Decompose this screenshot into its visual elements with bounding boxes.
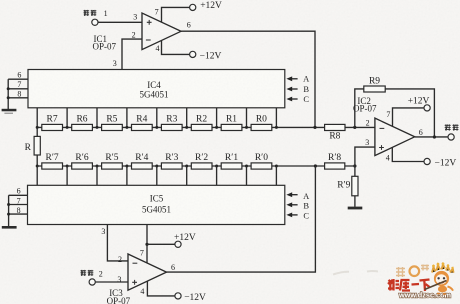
- wire Rp8 node to IC2 pin3: [355, 147, 375, 166]
- wire IC4 tap 6: [216, 108, 218, 128]
- multiplexer IC4: [28, 70, 285, 108]
- junction ladder1 node 4: [155, 126, 158, 129]
- junction ladder1 node 1: [66, 126, 69, 129]
- terminal +12V IC3: [175, 241, 181, 247]
- resistor R3: [161, 114, 182, 130]
- junction ladder2 node 8: [275, 165, 278, 168]
- input terminal 输入1: [92, 19, 98, 25]
- wire IC5 tap 1: [66, 166, 68, 185]
- resistor R4: [132, 114, 153, 130]
- terminal output 输出: [448, 134, 454, 140]
- watermark red text 维库一下: [388, 279, 430, 291]
- junction IC1 output / R8: [313, 126, 316, 129]
- wire IC4 tap 2: [96, 108, 98, 128]
- wire IC5 tap 7: [246, 166, 248, 185]
- ground IC4 bus: [2, 109, 17, 112]
- junction Rp8 / Rp9 / IC2 pin3: [353, 164, 356, 167]
- resistor R0: [251, 114, 272, 130]
- junction IC3 output / Rp8: [314, 164, 317, 167]
- pin 7 wire IC4: [8, 88, 28, 90]
- input terminal 输入2: [89, 279, 95, 285]
- arrow select A IC5: [286, 192, 297, 197]
- wire IC5 tap 6: [216, 166, 218, 185]
- label 输出: [445, 124, 459, 131]
- wire R to ladder2: [36, 155, 38, 166]
- pin 6 wire IC4: [8, 78, 28, 80]
- wire IC5 tap 5: [186, 166, 188, 185]
- wire Rp8 node to Rp9: [354, 166, 356, 176]
- wire IC5 tap 0: [36, 166, 38, 185]
- feedback resistor R9: [355, 77, 435, 137]
- wire IC5 tap 4: [156, 166, 158, 185]
- junction IC5 pin8 bus: [7, 213, 10, 216]
- junction ladder1 node 6: [215, 126, 218, 129]
- junction ladder2 node 5: [185, 165, 188, 168]
- watermark tan text: [396, 265, 429, 278]
- junction ladder1 node 7: [245, 126, 248, 129]
- junction ladder1 node 0: [36, 126, 39, 129]
- label 输入 2: [80, 270, 102, 279]
- resistor Rp7: [42, 153, 63, 169]
- pin 6 wire IC5: [9, 194, 28, 196]
- resistor R1: [221, 114, 242, 130]
- pin 8 wire IC5: [9, 213, 28, 215]
- resistor Rp0: [251, 153, 272, 169]
- wire IC1 pin4 to -12V: [162, 41, 190, 55]
- wire IC5 tap 2: [96, 166, 98, 185]
- junction ladder2 node 2: [96, 165, 99, 168]
- pin 8 wire IC4: [8, 97, 28, 99]
- junction R8 / R9 / IC2 pin2: [353, 126, 356, 129]
- arrow select C IC4: [286, 97, 297, 102]
- watermark swoosh: [333, 271, 378, 275]
- wire IC4 ground bus: [7, 79, 9, 109]
- resistor R2: [191, 114, 212, 130]
- wire IC1 pin7 to +12V: [162, 7, 190, 22]
- junction ladder2 node 7: [245, 165, 248, 168]
- junction IC2 output / R9: [433, 135, 436, 138]
- wire IC4 tap 0: [36, 108, 38, 128]
- ground IC5 bus: [2, 226, 17, 229]
- ground Rp9: [348, 207, 363, 210]
- watermark mascot: [425, 262, 454, 294]
- resistor Rp6: [72, 153, 93, 169]
- wire IC3 pin6 output to Rp8 node: [167, 166, 316, 272]
- junction ladder2 node 3: [125, 165, 128, 168]
- terminal -12V IC2: [424, 158, 430, 164]
- wire ladder1 to R: [36, 127, 38, 136]
- wire IC4 tap 7: [246, 108, 248, 128]
- arrow select C IC5: [286, 213, 297, 218]
- junction ladder2 node 0: [36, 165, 39, 168]
- wire IC1 pin6 output to R8 node: [181, 31, 315, 127]
- op-amp IC1: [142, 13, 181, 50]
- pin 7 wire IC5: [9, 204, 28, 206]
- wire IC4 tap 5: [186, 108, 188, 128]
- terminal -12V IC3: [175, 293, 181, 299]
- arrow select A IC4: [286, 76, 297, 81]
- wire IC2 pin7 to +12V: [393, 108, 424, 127]
- resistor Rp3: [161, 153, 182, 169]
- wire IC5 tap 8: [275, 166, 277, 185]
- resistor Rp5: [102, 153, 123, 169]
- arrow select B IC5: [286, 202, 297, 207]
- wire IC3 pin4 to -12V: [147, 281, 174, 296]
- wire input2 to IC3 pin3: [95, 281, 128, 283]
- resistor R5: [102, 114, 123, 130]
- resistor Rp1: [221, 153, 242, 169]
- wire IC5 supply to +12V node: [146, 225, 148, 263]
- multiplexer IC5: [28, 185, 285, 224]
- wire IC1 pin2 to IC4 pin3: [122, 39, 142, 69]
- junction ladder1 node 5: [185, 126, 188, 129]
- wire IC4 tap 4: [156, 108, 158, 128]
- resistor Rp4: [132, 153, 153, 169]
- label 输入 1: [83, 9, 107, 18]
- resistor Rp8: [325, 153, 345, 169]
- terminal +12V IC2: [424, 105, 430, 111]
- junction ladder1 node 2: [96, 126, 99, 129]
- junction ladder2 node 4: [155, 165, 158, 168]
- wire IC2 output: [415, 136, 448, 138]
- arrow select B IC4: [286, 87, 297, 92]
- wire input1 to IC1 pin3: [98, 21, 142, 23]
- wire ladder2 to R8p node: [37, 165, 355, 167]
- wire IC4 tap 8: [275, 108, 277, 128]
- resistor R7: [42, 114, 63, 130]
- terminal -12V IC1: [190, 51, 196, 57]
- junction IC5 pin7 bus: [7, 203, 10, 206]
- resistor R6: [72, 114, 93, 130]
- junction ladder1 node 8: [275, 126, 278, 129]
- junction IC4 pin8 bus: [7, 96, 10, 99]
- wire ladder1 to IC2 pin2: [37, 126, 375, 128]
- wire IC4 tap 1: [66, 108, 68, 128]
- junction IC4 pin7 bus: [7, 87, 10, 90]
- resistor R8: [325, 124, 345, 141]
- resistor Rp2: [191, 153, 212, 169]
- wire +12V node IC3: [147, 243, 175, 245]
- wire IC5 ground bus: [8, 195, 10, 226]
- wire IC4 tap 3: [126, 108, 128, 128]
- resistor R: [25, 136, 41, 155]
- wire IC5 pin3 to IC3 pin2: [107, 225, 128, 261]
- wire IC5 tap 3: [126, 166, 128, 185]
- junction ladder2 node 6: [215, 165, 218, 168]
- resistor Rp9: [337, 176, 358, 196]
- junction ladder2 node 1: [66, 165, 69, 168]
- junction IC5 supply / IC3 pin7: [145, 243, 148, 246]
- op-amp IC3: [128, 254, 167, 290]
- watermark magnifier ring: [410, 266, 420, 276]
- wire Rp9 to ground: [354, 196, 356, 207]
- junction ladder1 node 3: [125, 126, 128, 129]
- terminal +12V IC1: [190, 4, 196, 10]
- op-amp IC2: [375, 118, 415, 156]
- wire IC2 pin4 to -12V: [392, 147, 424, 161]
